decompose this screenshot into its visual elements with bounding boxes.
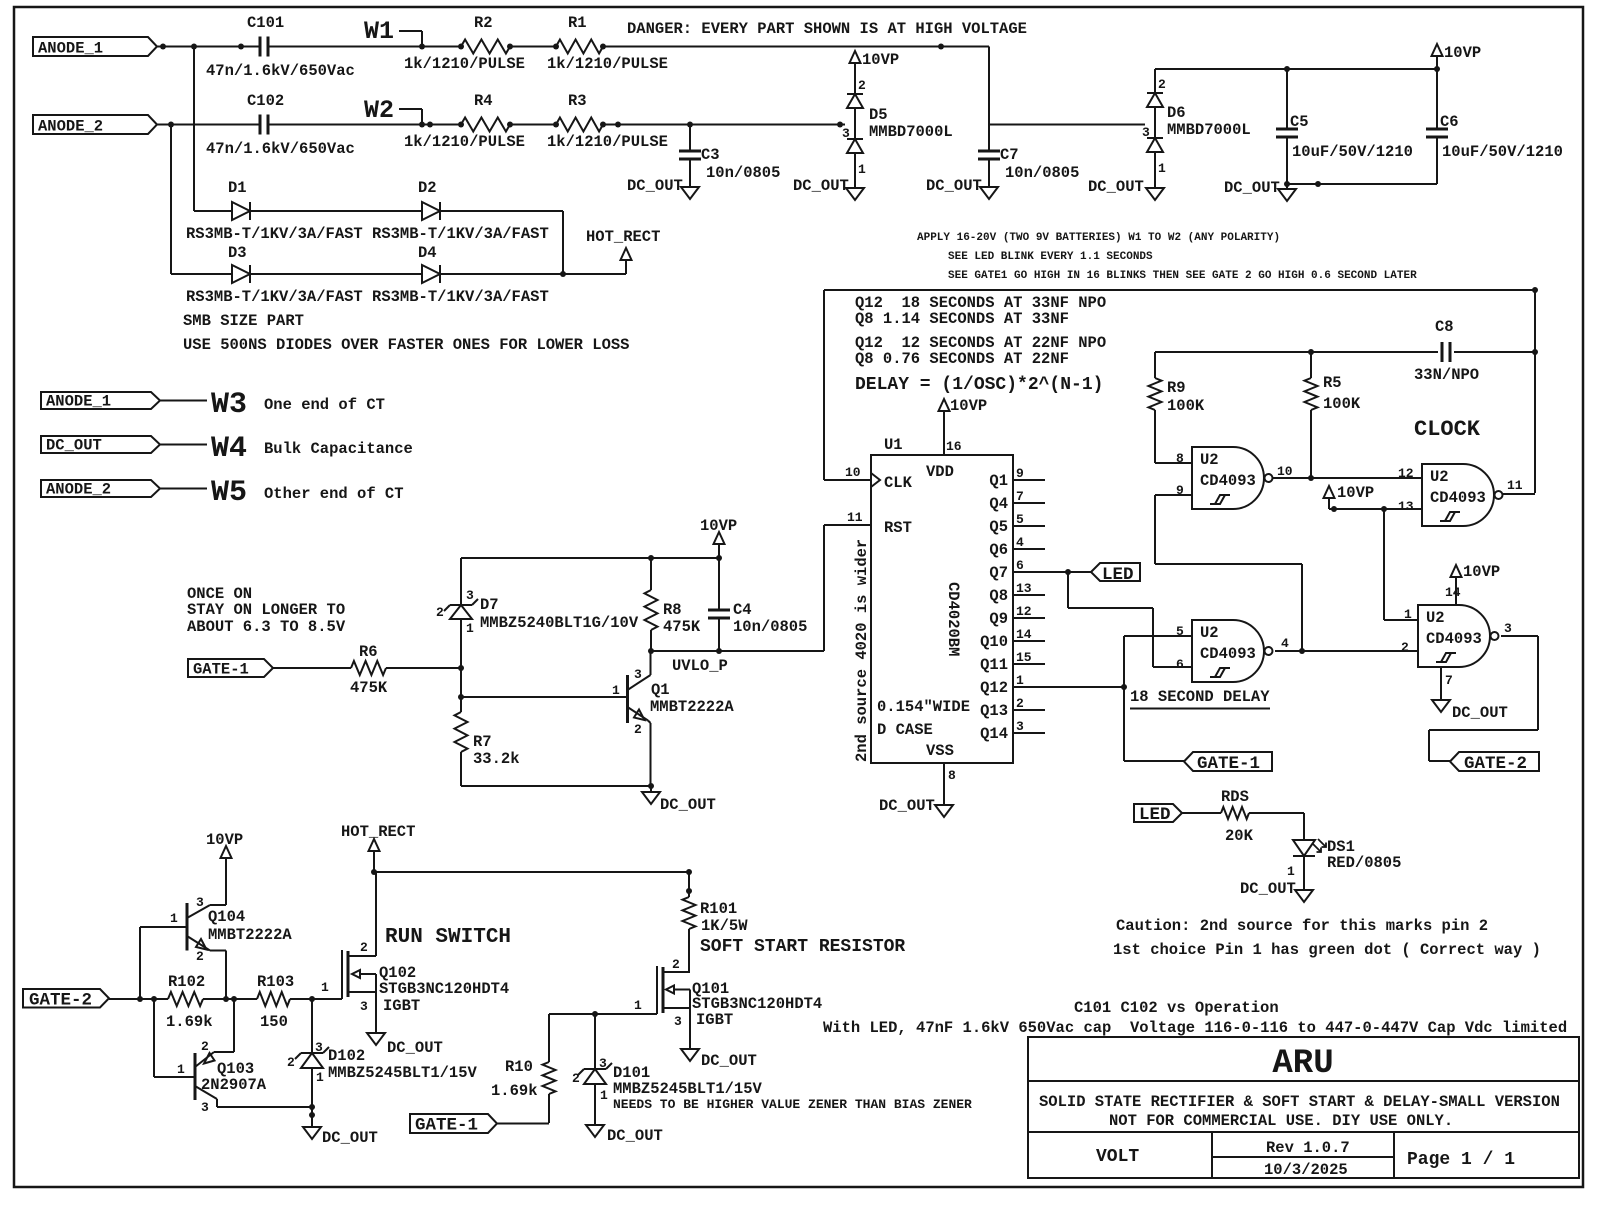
wire D2 to HOT_RECT corner bbox=[440, 211, 563, 274]
svg-text:CD4093: CD4093 bbox=[1200, 472, 1256, 490]
svg-text:10: 10 bbox=[1277, 464, 1293, 479]
svg-text:1: 1 bbox=[1404, 607, 1412, 622]
svg-text:R6: R6 bbox=[359, 643, 378, 661]
svg-text:USE 500NS DIODES OVER FASTER O: USE 500NS DIODES OVER FASTER ONES FOR LO… bbox=[183, 336, 629, 354]
wire pin5 net bbox=[1124, 636, 1192, 687]
wire base node to Q1 bbox=[461, 696, 627, 698]
svg-text:DC_OUT: DC_OUT bbox=[701, 1052, 757, 1070]
svg-text:Q14: Q14 bbox=[980, 725, 1008, 743]
text CLOCK label bbox=[1414, 417, 1481, 442]
resistor R5 bbox=[1305, 352, 1361, 478]
connector GATE-2 (input) bbox=[23, 989, 109, 1011]
svg-text:CD4020BM: CD4020BM bbox=[944, 582, 962, 656]
svg-text:RST: RST bbox=[884, 519, 912, 537]
ground DC_OUT at C7 bbox=[926, 177, 998, 199]
title line 2 bbox=[1109, 1112, 1453, 1130]
svg-text:ARU: ARU bbox=[1272, 1045, 1333, 1083]
text APPLY note bbox=[917, 232, 1280, 244]
capacitor C102 bbox=[206, 92, 355, 158]
svg-text:14: 14 bbox=[1016, 627, 1032, 642]
node junctions ANODE_1 row bbox=[160, 44, 944, 50]
svg-text:R8: R8 bbox=[663, 601, 682, 619]
text caution note bbox=[1113, 917, 1541, 959]
svg-text:IGBT: IGBT bbox=[383, 997, 420, 1015]
svg-text:C101 C102 vs Operation: C101 C102 vs Operation bbox=[1074, 999, 1279, 1017]
svg-text:11: 11 bbox=[847, 510, 863, 525]
U1 CLK pin bbox=[845, 465, 913, 492]
svg-text:1: 1 bbox=[1158, 161, 1166, 176]
ground DC_OUT at C5 bbox=[1224, 179, 1296, 201]
diode D4 bbox=[418, 244, 440, 283]
text Q12 timing notes bbox=[855, 294, 1106, 368]
svg-text:3: 3 bbox=[360, 999, 368, 1014]
svg-text:1: 1 bbox=[1287, 864, 1295, 879]
node junctions before R102 bbox=[137, 996, 157, 1002]
U2b output pin 4 bbox=[1275, 636, 1418, 651]
svg-text:C8: C8 bbox=[1435, 318, 1454, 336]
svg-text:12: 12 bbox=[1016, 604, 1032, 619]
svg-text:D3: D3 bbox=[228, 244, 247, 262]
U1 VSS pin 8 bbox=[926, 742, 956, 805]
node D101 junction bbox=[592, 1011, 598, 1017]
wire GATE-1 to R6 bbox=[273, 667, 351, 669]
connector ANODE_2 (input) bbox=[33, 115, 157, 136]
U2a pin 9 wire bbox=[1155, 483, 1302, 651]
svg-text:3: 3 bbox=[634, 667, 642, 682]
wire Q104 base bbox=[140, 927, 187, 999]
svg-text:47n/1.6kV/650Vac: 47n/1.6kV/650Vac bbox=[206, 140, 355, 158]
svg-text:R4: R4 bbox=[474, 92, 493, 110]
text zener note bbox=[613, 1097, 972, 1112]
text 18 SECOND DELAY bbox=[1130, 688, 1270, 709]
wire ANODE_1 to D1 bbox=[194, 47, 232, 212]
svg-text:R10: R10 bbox=[505, 1058, 533, 1076]
svg-text:Q13: Q13 bbox=[980, 702, 1008, 720]
svg-text:C101: C101 bbox=[247, 14, 284, 32]
svg-text:CD4093: CD4093 bbox=[1426, 630, 1482, 648]
svg-text:U2: U2 bbox=[1200, 451, 1219, 469]
svg-text:2N2907A: 2N2907A bbox=[201, 1076, 267, 1094]
node HOT_RECT rail junction bbox=[371, 869, 377, 875]
connector GATE-1 (soft start input) bbox=[410, 1114, 497, 1136]
wire HOT_RECT rail bbox=[374, 871, 689, 873]
IC U1 CD4020BM body bbox=[871, 436, 1013, 763]
node Q12 junction bbox=[1121, 684, 1127, 690]
svg-text:R3: R3 bbox=[568, 92, 587, 110]
wire pin13 to U2c pin1 bbox=[1384, 509, 1418, 620]
text SEE GATE1 note bbox=[948, 270, 1417, 282]
wire osc out to U2d pin12 bbox=[1311, 477, 1422, 479]
svg-text:2: 2 bbox=[1016, 696, 1024, 711]
svg-text:DC_OUT: DC_OUT bbox=[627, 177, 683, 195]
svg-text:6: 6 bbox=[1176, 657, 1184, 672]
title ARU bbox=[1272, 1045, 1333, 1083]
connector ANODE_1 (input) bbox=[33, 37, 157, 58]
svg-text:C5: C5 bbox=[1290, 113, 1309, 131]
resistor R6 bbox=[350, 643, 388, 697]
node D7-R6 junction bbox=[458, 665, 464, 671]
jumper W2 bbox=[364, 96, 422, 125]
svg-text:SEE LED BLINK EVERY 1.1 SECOND: SEE LED BLINK EVERY 1.1 SECONDS bbox=[948, 251, 1153, 263]
U1 RST pin bbox=[824, 510, 912, 651]
wire D1-D2 bbox=[250, 210, 422, 212]
svg-text:Q12: Q12 bbox=[980, 679, 1008, 697]
node Q102 gate junction bbox=[309, 996, 315, 1002]
svg-text:3: 3 bbox=[201, 1100, 209, 1115]
wire ANODE_2 to D3 bbox=[171, 125, 232, 275]
dual diode D6 MMBD7000L bbox=[1142, 69, 1251, 176]
diode D3 bbox=[228, 244, 250, 283]
svg-text:10VP: 10VP bbox=[700, 517, 737, 535]
resistor R10 bbox=[491, 1014, 556, 1123]
diode D1 bbox=[228, 179, 250, 220]
wire D5 to ground bbox=[854, 153, 856, 188]
svg-text:3: 3 bbox=[1142, 125, 1150, 140]
ground DC_OUT below U1 bbox=[879, 797, 953, 817]
svg-text:475K: 475K bbox=[663, 618, 701, 636]
svg-text:DC_OUT: DC_OUT bbox=[879, 797, 935, 815]
svg-text:DC_OUT: DC_OUT bbox=[46, 437, 102, 455]
svg-text:10uF/50V/1210: 10uF/50V/1210 bbox=[1292, 143, 1413, 161]
svg-text:With LED, 47nF 1.6kV 650Vac ca: With LED, 47nF 1.6kV 650Vac cap Voltage … bbox=[823, 1019, 1567, 1037]
U2b pin numbers bbox=[1176, 624, 1184, 672]
svg-text:CD4093: CD4093 bbox=[1430, 489, 1486, 507]
svg-text:U1: U1 bbox=[884, 436, 903, 454]
wire Q103 base bbox=[154, 999, 195, 1077]
wire Q101 gate row bbox=[549, 1013, 657, 1015]
svg-text:8: 8 bbox=[948, 768, 956, 783]
connector W5 ANODE_2 bbox=[41, 476, 404, 510]
capacitor C3 bbox=[679, 125, 780, 188]
svg-text:GATE-2: GATE-2 bbox=[1464, 754, 1527, 774]
ground DC_OUT below D102 bbox=[303, 1127, 378, 1147]
svg-text:5: 5 bbox=[1176, 624, 1184, 639]
U2c pin 7 to ground bbox=[1432, 667, 1508, 722]
svg-text:7: 7 bbox=[1016, 489, 1024, 504]
svg-text:2: 2 bbox=[1401, 640, 1409, 655]
svg-text:GATE-1: GATE-1 bbox=[1197, 754, 1260, 774]
label D3 D4 values bbox=[186, 288, 549, 306]
U2c pin 14 to 10VP bbox=[1445, 563, 1500, 605]
svg-text:8: 8 bbox=[1176, 451, 1184, 466]
wire R9/R5/C8 top bbox=[1155, 351, 1438, 353]
svg-text:R5: R5 bbox=[1323, 374, 1342, 392]
svg-text:Q8 0.76 SECONDS AT 22NF: Q8 0.76 SECONDS AT 22NF bbox=[855, 350, 1069, 368]
svg-text:4: 4 bbox=[1016, 535, 1024, 550]
svg-text:18 SECOND DELAY: 18 SECOND DELAY bbox=[1130, 688, 1270, 706]
text DANGER warning bbox=[627, 20, 1027, 38]
svg-text:10VP: 10VP bbox=[950, 397, 987, 415]
wire R102 to R103 bbox=[203, 998, 257, 1000]
svg-text:10uF/50V/1210: 10uF/50V/1210 bbox=[1442, 143, 1563, 161]
svg-text:2: 2 bbox=[572, 1071, 580, 1086]
wire C8 to clock out bbox=[1454, 351, 1535, 353]
zener D102 MMBZ5245 bbox=[287, 999, 478, 1127]
svg-text:1: 1 bbox=[1016, 673, 1024, 688]
wire to HOT_RECT bbox=[440, 260, 626, 274]
svg-text:CD4093: CD4093 bbox=[1200, 645, 1256, 663]
wire DS1 to ground bbox=[1303, 856, 1305, 890]
resistor RDS bbox=[1221, 788, 1254, 845]
svg-text:HOT_RECT: HOT_RECT bbox=[586, 228, 660, 246]
svg-text:Rev 1.0.7: Rev 1.0.7 bbox=[1266, 1139, 1350, 1157]
svg-text:SOLID STATE RECTIFIER & SOFT S: SOLID STATE RECTIFIER & SOFT START & DEL… bbox=[1039, 1093, 1560, 1111]
svg-text:2: 2 bbox=[201, 1039, 209, 1054]
text RUN SWITCH bbox=[385, 926, 511, 949]
svg-text:DC_OUT: DC_OUT bbox=[607, 1127, 663, 1145]
svg-text:SOFT START RESISTOR: SOFT START RESISTOR bbox=[700, 937, 905, 957]
title date bbox=[1264, 1161, 1348, 1179]
resistor R2 bbox=[404, 14, 525, 73]
resistor R9 bbox=[1149, 352, 1205, 463]
net 10VP top right bbox=[1432, 44, 1482, 69]
wire UVLO_P row bbox=[651, 650, 824, 652]
svg-text:2: 2 bbox=[634, 722, 642, 737]
connector LED flag (Q7) bbox=[1091, 563, 1140, 585]
svg-text:SEE GATE1 GO HIGH IN 16 BLINKS: SEE GATE1 GO HIGH IN 16 BLINKS THEN SEE … bbox=[948, 270, 1417, 282]
resistor R1 bbox=[547, 14, 668, 73]
svg-text:DC_OUT: DC_OUT bbox=[1088, 178, 1144, 196]
wire GATE-1 to R10 bbox=[497, 1123, 549, 1125]
U1 pin16 VDD to 10VP bbox=[926, 397, 987, 481]
svg-text:1st choice Pin 1 has green dot: 1st choice Pin 1 has green dot ( Correct… bbox=[1113, 941, 1541, 959]
node delay out junction bbox=[1299, 648, 1305, 654]
svg-text:DC_OUT: DC_OUT bbox=[793, 177, 849, 195]
svg-text:STGB3NC120HDT4: STGB3NC120HDT4 bbox=[379, 980, 509, 998]
svg-text:RUN SWITCH: RUN SWITCH bbox=[385, 926, 511, 949]
svg-text:D5: D5 bbox=[869, 106, 888, 124]
svg-text:1.69k: 1.69k bbox=[491, 1082, 538, 1100]
svg-text:DC_OUT: DC_OUT bbox=[387, 1039, 443, 1057]
node C8-out junction bbox=[1532, 287, 1538, 355]
wire Q103 collector row bbox=[217, 1106, 312, 1108]
resistor R103 bbox=[257, 973, 294, 1031]
LED DS1 bbox=[1287, 838, 1401, 879]
svg-text:DANGER: EVERY PART SHOWN IS AT: DANGER: EVERY PART SHOWN IS AT HIGH VOLT… bbox=[627, 20, 1027, 38]
svg-text:R103: R103 bbox=[257, 973, 294, 991]
svg-text:W4: W4 bbox=[211, 432, 247, 466]
wire R103 to Q102 gate bbox=[290, 998, 342, 1000]
svg-text:10VP: 10VP bbox=[862, 51, 899, 69]
ground DC_OUT below Q102 bbox=[367, 1033, 443, 1057]
svg-text:10: 10 bbox=[845, 465, 861, 480]
svg-text:Q6: Q6 bbox=[989, 541, 1008, 559]
svg-text:GATE-2: GATE-2 bbox=[29, 991, 92, 1011]
wire Q7 to U2 pin6 bbox=[1068, 572, 1192, 667]
svg-text:1: 1 bbox=[600, 1088, 608, 1103]
svg-text:2nd source 4020 is wider: 2nd source 4020 is wider bbox=[853, 539, 871, 762]
net 10VP above C4 bbox=[700, 517, 737, 558]
svg-text:DC_OUT: DC_OUT bbox=[1224, 179, 1280, 197]
svg-text:Q7: Q7 bbox=[989, 564, 1008, 582]
svg-text:MMBT2222A: MMBT2222A bbox=[208, 926, 292, 944]
svg-text:2: 2 bbox=[360, 940, 368, 955]
svg-text:2: 2 bbox=[196, 949, 204, 964]
svg-text:MMBZ5240BLT1G/10V: MMBZ5240BLT1G/10V bbox=[480, 614, 639, 632]
U1 text 0.154 WIDE bbox=[877, 698, 970, 739]
wire CLK net from clock bbox=[824, 290, 1535, 493]
svg-text:VOLT: VOLT bbox=[1096, 1147, 1139, 1167]
svg-text:6: 6 bbox=[1016, 558, 1024, 573]
wire 10VP top rail bbox=[1155, 68, 1437, 70]
svg-text:1: 1 bbox=[858, 162, 866, 177]
svg-text:0.154"WIDE: 0.154"WIDE bbox=[877, 698, 970, 716]
svg-text:5: 5 bbox=[1016, 512, 1024, 527]
svg-text:W5: W5 bbox=[211, 476, 247, 510]
text ONCE ON note bbox=[187, 585, 346, 636]
diode D2 bbox=[418, 179, 440, 220]
text C101 C102 vs Operation bbox=[1074, 999, 1279, 1017]
ground DC_OUT below D101 bbox=[586, 1125, 663, 1145]
svg-text:DC_OUT: DC_OUT bbox=[322, 1129, 378, 1147]
svg-text:APPLY 16-20V (TWO 9V BATTERIES: APPLY 16-20V (TWO 9V BATTERIES) W1 TO W2… bbox=[917, 232, 1280, 244]
U2a output pin 10 bbox=[1273, 464, 1311, 479]
svg-text:7: 7 bbox=[1445, 673, 1453, 688]
zener D101 MMBZ5245 bbox=[572, 1014, 763, 1125]
node emitter-R7 junction bbox=[648, 783, 654, 789]
svg-text:R1: R1 bbox=[568, 14, 587, 32]
wire C5-C6 bottom bbox=[1287, 183, 1437, 185]
svg-text:9: 9 bbox=[1176, 483, 1184, 498]
svg-text:One end of CT: One end of CT bbox=[264, 396, 385, 414]
text SMB note bbox=[183, 312, 629, 354]
capacitor C7 bbox=[978, 125, 1079, 188]
svg-text:150: 150 bbox=[260, 1013, 288, 1031]
svg-text:D1: D1 bbox=[228, 179, 247, 197]
node D102 bottom junction bbox=[309, 1104, 315, 1118]
svg-text:IGBT: IGBT bbox=[696, 1011, 733, 1029]
svg-text:D2: D2 bbox=[418, 179, 437, 197]
node junctions top rail bbox=[648, 555, 722, 561]
svg-text:W1: W1 bbox=[364, 17, 394, 46]
transistor Q103 2N2907A bbox=[177, 999, 267, 1115]
U1 vertical text CD4020BM bbox=[944, 582, 962, 656]
title Rev bbox=[1266, 1139, 1350, 1157]
svg-text:33.2k: 33.2k bbox=[473, 750, 520, 768]
net 10VP at pin13 bbox=[1324, 484, 1375, 509]
svg-text:15: 15 bbox=[1016, 650, 1032, 665]
text With LED note bbox=[823, 1019, 1567, 1037]
title page bbox=[1407, 1150, 1515, 1170]
svg-text:NEEDS TO BE HIGHER VALUE ZENER: NEEDS TO BE HIGHER VALUE ZENER THAN BIAS… bbox=[613, 1097, 972, 1112]
svg-text:1: 1 bbox=[170, 911, 178, 926]
capacitor C101 bbox=[206, 14, 355, 80]
node pin13 junctions bbox=[1331, 506, 1387, 512]
node junctions after R102 bbox=[223, 996, 237, 1002]
svg-text:ANODE_2: ANODE_2 bbox=[46, 481, 111, 499]
svg-text:R7: R7 bbox=[473, 733, 492, 751]
svg-text:RS3MB-T/1KV/3A/FAST RS3MB-T/1K: RS3MB-T/1KV/3A/FAST RS3MB-T/1KV/3A/FAST bbox=[186, 288, 549, 306]
svg-text:2: 2 bbox=[672, 957, 680, 972]
node Q7 junction bbox=[1065, 569, 1071, 575]
text SEE LED note bbox=[948, 251, 1153, 263]
svg-text:1k/1210/PULSE: 1k/1210/PULSE bbox=[404, 133, 525, 151]
svg-text:3: 3 bbox=[599, 1056, 607, 1071]
dual diode D5 MMBD7000L bbox=[842, 78, 953, 177]
svg-text:Page 1 / 1: Page 1 / 1 bbox=[1407, 1150, 1515, 1170]
svg-text:ANODE_1: ANODE_1 bbox=[46, 393, 111, 411]
svg-text:R102: R102 bbox=[168, 973, 205, 991]
svg-text:GATE-1: GATE-1 bbox=[415, 1116, 478, 1136]
wire ANODE_1 row bbox=[157, 46, 989, 48]
svg-text:10VP: 10VP bbox=[1337, 484, 1374, 502]
svg-text:Q10: Q10 bbox=[980, 633, 1008, 651]
svg-text:Other end of CT: Other end of CT bbox=[264, 485, 404, 503]
svg-text:R101: R101 bbox=[700, 900, 737, 918]
nand gate U2c (gate2 driver) bbox=[1418, 605, 1499, 667]
wire pin13 net bbox=[1329, 508, 1422, 510]
wire U2c out to GATE-2 bbox=[1429, 636, 1538, 761]
svg-text:10n/0805: 10n/0805 bbox=[1005, 164, 1079, 182]
svg-text:Q104: Q104 bbox=[208, 908, 245, 926]
svg-text:1k/1210/PULSE: 1k/1210/PULSE bbox=[404, 55, 525, 73]
connector W4 DC_OUT bbox=[41, 432, 413, 466]
wire D6 to ground bbox=[1154, 152, 1156, 188]
svg-text:C102: C102 bbox=[247, 92, 284, 110]
wire emitter bottom row bbox=[461, 785, 651, 787]
svg-text:100K: 100K bbox=[1167, 397, 1205, 415]
svg-text:10n/0805: 10n/0805 bbox=[733, 618, 807, 636]
connector GATE-2 flag bbox=[1450, 752, 1539, 774]
svg-text:1.69k: 1.69k bbox=[166, 1013, 213, 1031]
node HOT_RECT junction bbox=[560, 271, 566, 277]
svg-text:1: 1 bbox=[612, 683, 620, 698]
svg-text:DC_OUT: DC_OUT bbox=[660, 796, 716, 814]
wire LED to RDS bbox=[1182, 812, 1221, 814]
svg-text:1: 1 bbox=[466, 621, 474, 636]
svg-text:Q9: Q9 bbox=[989, 610, 1008, 628]
ground DC_OUT at D6 bbox=[1088, 178, 1164, 200]
svg-text:DC_OUT: DC_OUT bbox=[926, 177, 982, 195]
svg-text:VSS: VSS bbox=[926, 742, 954, 760]
U2a pin 8 wire bbox=[1155, 451, 1192, 466]
node junctions C5 bottom bbox=[1284, 181, 1321, 187]
label D1 D2 values bbox=[186, 225, 549, 243]
ground DC_OUT below Q101 bbox=[681, 1049, 757, 1070]
node junctions 10VP rail bbox=[1284, 66, 1440, 72]
node osc out junction bbox=[1308, 475, 1314, 481]
connector GATE-1 (UVLO input) bbox=[188, 659, 273, 679]
wire 10VP rail over D7 bbox=[461, 557, 719, 559]
svg-text:1: 1 bbox=[177, 1062, 185, 1077]
net HOT_RECT above Q102 bbox=[341, 823, 415, 872]
svg-text:U2: U2 bbox=[1430, 468, 1449, 486]
svg-text:1: 1 bbox=[316, 1070, 324, 1085]
svg-text:3: 3 bbox=[315, 1040, 323, 1055]
svg-text:MMBD7000L: MMBD7000L bbox=[869, 123, 953, 141]
U1 vertical text 2nd source bbox=[853, 539, 871, 762]
ground DC_OUT below DS1 bbox=[1240, 880, 1313, 902]
svg-text:DC_OUT: DC_OUT bbox=[1240, 880, 1296, 898]
svg-text:2: 2 bbox=[1158, 77, 1166, 92]
resistor R102 bbox=[166, 973, 213, 1031]
connector W3 ANODE_1 bbox=[41, 388, 385, 422]
svg-text:MMBD7000L: MMBD7000L bbox=[1167, 121, 1251, 139]
net HOT_RECT (top-left) bbox=[586, 228, 660, 260]
svg-text:Q5: Q5 bbox=[989, 518, 1008, 536]
ground DC_OUT at C3 bbox=[627, 177, 699, 199]
svg-text:Caution: 2nd source for this m: Caution: 2nd source for this marks pin 2 bbox=[1116, 917, 1488, 935]
svg-text:10VP: 10VP bbox=[1444, 44, 1481, 62]
svg-text:MMBZ5245BLT1/15V: MMBZ5245BLT1/15V bbox=[613, 1080, 763, 1098]
svg-text:14: 14 bbox=[1445, 585, 1461, 600]
svg-text:2: 2 bbox=[858, 78, 866, 93]
net 10VP above Q104 bbox=[206, 831, 243, 890]
svg-text:13: 13 bbox=[1016, 581, 1032, 596]
svg-text:ANODE_1: ANODE_1 bbox=[38, 40, 103, 58]
svg-text:10n/0805: 10n/0805 bbox=[706, 164, 780, 182]
svg-text:4: 4 bbox=[1281, 636, 1289, 651]
